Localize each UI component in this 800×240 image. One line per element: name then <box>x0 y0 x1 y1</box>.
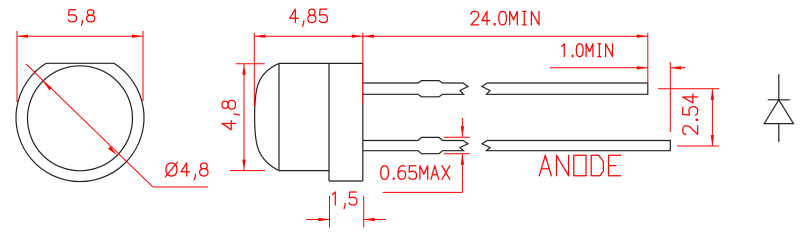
text 1.0MIN <box>562 44 613 57</box>
upper lead right segment with break and tip <box>482 83 648 94</box>
dimension 0.65MAX: leader horizontal <box>383 191 463 193</box>
dimension 1,5: right arrowhead <box>364 218 375 221</box>
dimension 1,5: right extension line <box>363 196 365 228</box>
dimension 2.54: bottom extension line <box>677 145 719 147</box>
text 24.0MIN <box>471 11 539 25</box>
dimension 0.65MAX: lower extension line <box>444 153 470 155</box>
diode symbol: triangle <box>764 100 793 124</box>
dimension 5,8: left extension line <box>16 31 18 102</box>
LED side view: flange bottom line <box>329 180 363 182</box>
dimension 2.54: dimension line <box>711 89 713 146</box>
dimension 1.0MIN: extension line at anode tip <box>669 62 671 132</box>
LED side view: epoxy dome <box>255 63 279 170</box>
lower lead (anode) left segment with crimp and break <box>363 137 468 153</box>
label ANODE <box>539 155 620 176</box>
dimension 4,8: dimension line <box>243 64 245 171</box>
dimension 5,8: right extension line <box>142 31 144 101</box>
dimension 4,8: bottom extension line <box>230 170 265 172</box>
dimension 0.65MAX: upper arrowhead <box>461 126 464 137</box>
text 4,85 <box>290 9 328 26</box>
diode symbol: cathode bar <box>768 99 790 101</box>
upper lead (cathode) left segment with crimp and break <box>363 81 468 97</box>
dimension 4,85: left extension line <box>253 33 255 106</box>
dimension line 4,85 and 24.0MIN <box>254 35 648 37</box>
dimension 5,8: right arrowhead <box>132 35 143 38</box>
shared extension line at flange right (4,85 / 24.0MIN) <box>362 33 364 104</box>
LED side view: body top line <box>279 62 363 64</box>
text 2.54 rotated <box>683 94 698 134</box>
diameter leader arrowhead lower-right <box>108 146 117 155</box>
dimension 2.54: top extension line <box>658 88 719 90</box>
diode symbol: bottom lead (anode) <box>778 124 780 142</box>
dimension 5,8: dimension line <box>17 35 143 37</box>
lower lead right segment with break and tip <box>482 141 670 151</box>
dimension 24.0MIN: right arrowhead <box>637 35 648 38</box>
LED side view: flange right edge <box>362 63 364 181</box>
LED top view: outer flange circle with flat (left view) <box>16 63 144 181</box>
dimension 1,5: left extension line <box>329 196 331 228</box>
dimension 4,8: top arrowhead <box>242 64 245 75</box>
LED side view: body-flange boundary line <box>328 63 330 181</box>
text 1,5 <box>332 192 357 209</box>
dimension 1.0MIN: right tail <box>670 67 685 69</box>
dimension 4,85: left arrowhead <box>254 35 265 38</box>
diameter leader arrowhead upper-left <box>43 81 52 90</box>
dimension 1,5: left tail <box>306 219 329 221</box>
text 4,8 rotated <box>222 100 239 130</box>
diameter leader line (45 deg) <box>26 64 153 187</box>
dimension 24.0MIN: left arrowhead <box>363 35 374 38</box>
LED top view: inner epoxy body circle <box>28 66 133 171</box>
diameter leader horizontal tail <box>153 186 208 188</box>
dimension 0.65MAX: upper arrow line <box>461 118 463 137</box>
dimension 2.54: top arrowhead <box>711 89 714 100</box>
dimension 1.0MIN: dimension line left tail <box>550 67 648 69</box>
diode symbol: top lead (cathode) <box>778 74 780 100</box>
dimension 1,5: left arrowhead <box>319 218 330 221</box>
LED side view: dome-body junction line <box>278 63 280 170</box>
label dia 4,8 <box>165 162 208 180</box>
dimension 2.54: bottom arrowhead <box>711 135 714 146</box>
dimension 0.65MAX: lower arrowhead <box>461 154 464 165</box>
text 0.65MAX <box>381 166 450 180</box>
dimension 24.0MIN: right extension line <box>647 33 649 85</box>
dimension 4,8: top extension line <box>236 63 265 65</box>
dimension 0.65MAX: lower arrow line <box>461 154 463 193</box>
LED side view: body bottom line <box>279 170 329 172</box>
text 5,8 <box>68 10 94 26</box>
dimension 4,8: bottom arrowhead <box>242 160 245 171</box>
dimension 4,85: right arrowhead <box>352 35 363 38</box>
dimension 1.0MIN: left arrowhead <box>637 66 648 69</box>
dimension 0.65MAX: upper extension line <box>444 136 470 138</box>
dimension 5,8: left arrowhead <box>17 35 28 38</box>
dimension 1.0MIN: right arrowhead <box>670 66 681 69</box>
dimension 1,5: right tail <box>364 219 386 221</box>
